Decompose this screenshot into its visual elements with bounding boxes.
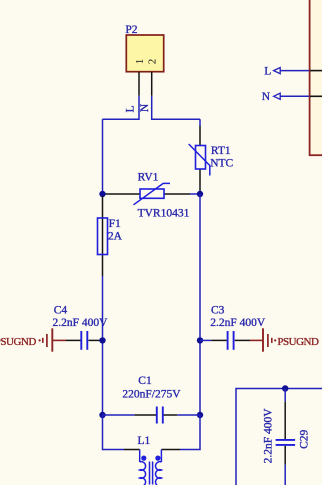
svg-text:2.2nF 400V: 2.2nF 400V — [53, 317, 109, 329]
inductor L1 polarity dot left — [141, 456, 146, 461]
bottom right wires — [236, 389, 322, 485]
junction C3 — [197, 337, 203, 343]
inductor L1 pin right — [161, 449, 180, 451]
capacitor C4 pin right — [89, 339, 103, 341]
capacitor C1 pin left — [135, 414, 156, 416]
svg-text:RT1: RT1 — [211, 145, 231, 157]
svg-text:L: L — [264, 66, 271, 78]
varistor RV1 row wire right — [164, 193, 190, 195]
svg-text:NTC: NTC — [210, 157, 233, 169]
capacitor C3 pin right — [235, 339, 250, 341]
inductor L1 left lead — [139, 450, 141, 463]
capacitor C1 plates — [156, 407, 158, 424]
pin 1 line — [138, 72, 140, 96]
wire C1 right stub — [177, 414, 200, 416]
wire left rail upper — [102, 119, 104, 196]
capacitor C3 pin left — [211, 339, 226, 341]
svg-text:C1: C1 — [138, 375, 152, 387]
connector P2 — [126, 35, 163, 72]
wire N to sheet entry — [280, 95, 309, 97]
wire from pin1 down/left — [103, 96, 140, 119]
wire right rail lower — [180, 415, 200, 450]
svg-text:TVR10431: TVR10431 — [138, 207, 190, 219]
svg-text:2.2nF 400V: 2.2nF 400V — [262, 408, 274, 464]
power port PSUGND right — [250, 339, 263, 341]
wire C29 top stub — [284, 389, 286, 402]
capacitor C29 pin top — [284, 402, 286, 439]
svg-text:2A: 2A — [108, 230, 123, 242]
wire from pin2 down/right — [152, 96, 200, 119]
svg-text:2.2nF 400V: 2.2nF 400V — [210, 317, 266, 329]
svg-text:C29: C29 — [299, 429, 311, 448]
capacitor C1 pin right — [164, 414, 178, 416]
junction left RV1 — [99, 191, 105, 197]
capacitor C4 pin left — [66, 339, 81, 341]
inductor L1 pin left — [124, 449, 140, 451]
wire C1 left stub — [103, 414, 135, 416]
inductor L1 core lines — [149, 462, 151, 485]
capacitor C29 plates — [276, 439, 296, 441]
capacitor C29 pin bottom — [284, 446, 286, 465]
sheet entry wire L (inside sheet) — [310, 70, 322, 72]
junction right RV1 — [197, 191, 203, 197]
junction C1 left — [99, 412, 105, 418]
svg-text:N: N — [139, 103, 151, 112]
wire C3 stub — [200, 339, 211, 341]
thermistor RT1 body — [196, 146, 206, 170]
sheet entry wire N (inside sheet) — [310, 95, 322, 97]
wire left rail middle — [102, 276, 104, 415]
fuse F1 body — [98, 218, 108, 255]
inductor L1 polarity dot right — [155, 456, 160, 461]
svg-text:L1: L1 — [138, 435, 151, 447]
svg-text:C4: C4 — [54, 304, 68, 316]
varistor RV1 body — [140, 189, 164, 198]
wire right rail top — [199, 119, 201, 126]
svg-text:F1: F1 — [109, 218, 121, 230]
inductor L1 left winding — [140, 462, 146, 485]
svg-text:220nF/275V: 220nF/275V — [122, 388, 181, 400]
svg-text:PSUGND: PSUGND — [277, 336, 319, 348]
wire C29 bottom stub — [284, 465, 286, 485]
thermistor RT1 diagonal — [189, 144, 210, 176]
pin 2 line — [151, 72, 153, 96]
varistor RV1 diagonal — [134, 183, 171, 204]
junction C29 — [282, 385, 288, 391]
wire right rail middle — [199, 194, 201, 415]
svg-text:RV1: RV1 — [138, 172, 159, 184]
thermistor RT1 pins — [199, 126, 201, 146]
power port PSUGND left bars — [39, 339, 41, 341]
svg-text:1: 1 — [134, 59, 146, 65]
varistor RV1 row wire left — [103, 193, 141, 195]
svg-text:L: L — [125, 105, 137, 112]
capacitor C4 plates — [80, 331, 82, 350]
fuse F1 pins — [102, 196, 104, 276]
port arrow N — [274, 93, 281, 99]
svg-text:N: N — [262, 91, 271, 103]
svg-text:C3: C3 — [211, 304, 225, 316]
inductor L1 right winding — [156, 462, 162, 485]
wire left rail lower — [103, 415, 125, 450]
port arrow L — [274, 68, 281, 74]
svg-text:PSUGND: PSUGND — [0, 336, 36, 348]
svg-text:P2: P2 — [125, 24, 137, 36]
wire L to sheet entry — [280, 70, 309, 72]
svg-text:2: 2 — [147, 59, 159, 65]
junction C1 right — [197, 412, 203, 418]
junction C4 — [99, 337, 105, 343]
capacitor C3 plates — [227, 331, 229, 350]
sheet symbol U-MAINS (partial, top right) — [310, 0, 322, 155]
inductor L1 right lead — [160, 450, 162, 463]
